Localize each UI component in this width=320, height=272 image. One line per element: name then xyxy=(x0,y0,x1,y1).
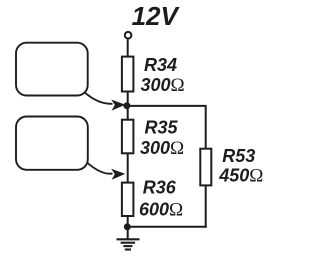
svg-text:12V: 12V xyxy=(132,1,181,31)
wire: node A to right branch (top horizontal) xyxy=(127,105,207,107)
wire: right branch vertical bottom xyxy=(205,186,207,228)
callout box 2 (points to R35-R36 wire) xyxy=(16,117,88,170)
wire: node A to R35 xyxy=(127,106,129,119)
wire: bottom horizontal to ground node xyxy=(127,226,207,228)
wire: R36 to ground node xyxy=(127,217,129,227)
svg-text:R36: R36 xyxy=(143,178,177,198)
wire: R35 to R36 (node B) xyxy=(127,154,129,182)
resistor R53 xyxy=(200,149,211,186)
callout box 1 (points to node A) xyxy=(16,43,88,96)
svg-text:300Ω: 300Ω xyxy=(140,138,184,159)
svg-text:450Ω: 450Ω xyxy=(218,166,263,187)
arrow: callout 2 to R35-R36 wire xyxy=(82,158,125,180)
node A junction dot (R34/R35/R53) xyxy=(123,102,130,109)
resistor R36 xyxy=(122,183,133,216)
svg-text:R34: R34 xyxy=(144,55,177,75)
wire: right branch vertical top xyxy=(205,106,207,149)
terminal node (12V) xyxy=(125,32,132,39)
svg-text:300Ω: 300Ω xyxy=(141,75,185,96)
svg-text:R53: R53 xyxy=(222,146,255,166)
arrow: callout 1 to node A xyxy=(80,88,125,111)
svg-text:R35: R35 xyxy=(145,118,179,138)
wire: ground node to ground symbol xyxy=(127,227,129,239)
resistor R34 xyxy=(122,57,133,92)
wire: R34 to node A xyxy=(127,92,129,106)
ground node junction dot xyxy=(124,223,131,230)
wire: terminal to R34 xyxy=(127,39,129,57)
resistor R35 xyxy=(122,120,133,154)
svg-text:600Ω: 600Ω xyxy=(139,199,183,220)
ground symbol xyxy=(117,239,140,249)
